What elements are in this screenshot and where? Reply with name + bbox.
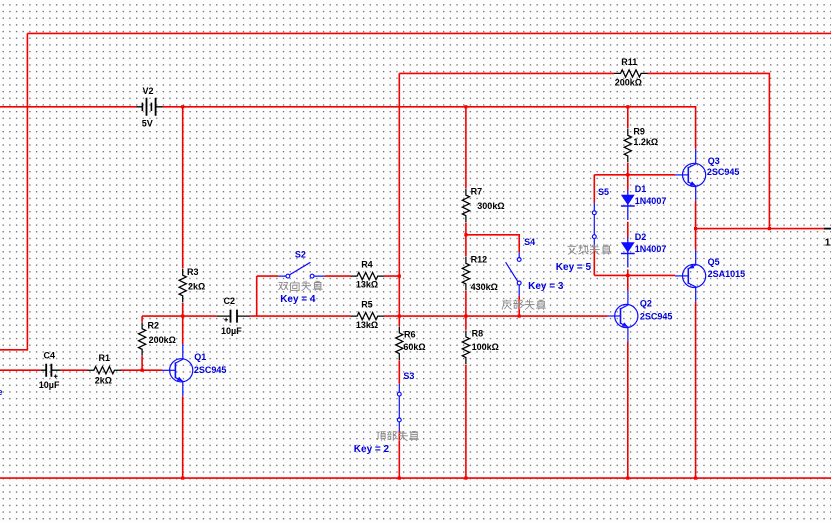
svg-text:2kΩ: 2kΩ xyxy=(95,375,112,385)
svg-text:R3: R3 xyxy=(187,267,199,277)
svg-text:R6: R6 xyxy=(404,329,416,339)
svg-text:R2: R2 xyxy=(148,320,160,330)
svg-text:2kΩ: 2kΩ xyxy=(188,282,205,292)
svg-text:C4: C4 xyxy=(44,350,56,360)
svg-text:10µF: 10µF xyxy=(39,380,60,390)
svg-text:R4: R4 xyxy=(361,259,373,269)
svg-text:100kΩ: 100kΩ xyxy=(472,342,499,352)
svg-text:Q5: Q5 xyxy=(708,257,720,267)
svg-text:S4: S4 xyxy=(524,237,535,247)
svg-text:13kΩ: 13kΩ xyxy=(356,279,378,289)
svg-text:S2: S2 xyxy=(295,250,306,260)
svg-text:R12: R12 xyxy=(471,254,488,264)
svg-text:200kΩ: 200kΩ xyxy=(149,335,176,345)
svg-text:430kΩ: 430kΩ xyxy=(471,282,498,292)
svg-text:R9: R9 xyxy=(633,126,645,136)
svg-text:D1: D1 xyxy=(635,184,647,194)
svg-text:R11: R11 xyxy=(621,57,637,67)
svg-text:R7: R7 xyxy=(471,186,483,196)
svg-text:S3: S3 xyxy=(403,371,414,381)
svg-text:1.2kΩ: 1.2kΩ xyxy=(633,137,658,147)
svg-text:Key = 3: Key = 3 xyxy=(528,281,564,292)
svg-text:10µF: 10µF xyxy=(221,326,242,336)
svg-text:Key = 2: Key = 2 xyxy=(354,444,390,455)
svg-text:5V: 5V xyxy=(142,118,153,128)
svg-text:Q2: Q2 xyxy=(640,299,652,309)
svg-text:R1: R1 xyxy=(99,353,111,363)
svg-text:Key = 5: Key = 5 xyxy=(556,262,592,273)
svg-text:13kΩ: 13kΩ xyxy=(356,320,378,330)
svg-text:D2: D2 xyxy=(635,232,647,242)
svg-text:2SC945: 2SC945 xyxy=(194,365,227,375)
svg-text:200kΩ: 200kΩ xyxy=(615,78,642,88)
svg-text:R5: R5 xyxy=(361,299,373,309)
svg-text:300kΩ: 300kΩ xyxy=(477,201,504,211)
svg-text:S5: S5 xyxy=(598,187,609,197)
svg-text:C2: C2 xyxy=(224,296,236,306)
svg-text:V2: V2 xyxy=(143,86,154,96)
svg-text:1: 1 xyxy=(825,237,831,248)
svg-text:Key = 4: Key = 4 xyxy=(280,294,316,305)
svg-text:2SA1015: 2SA1015 xyxy=(708,269,746,279)
svg-text:R8: R8 xyxy=(472,329,484,339)
svg-text:1N4007: 1N4007 xyxy=(635,196,667,206)
svg-text:60kΩ: 60kΩ xyxy=(403,342,425,352)
svg-text:2SC945: 2SC945 xyxy=(707,167,740,177)
svg-text:1N4007: 1N4007 xyxy=(635,244,667,254)
svg-text:2SC945: 2SC945 xyxy=(640,312,673,322)
svg-text:Q1: Q1 xyxy=(194,352,206,362)
svg-text:e: e xyxy=(0,387,3,397)
svg-text:Q3: Q3 xyxy=(708,156,720,166)
